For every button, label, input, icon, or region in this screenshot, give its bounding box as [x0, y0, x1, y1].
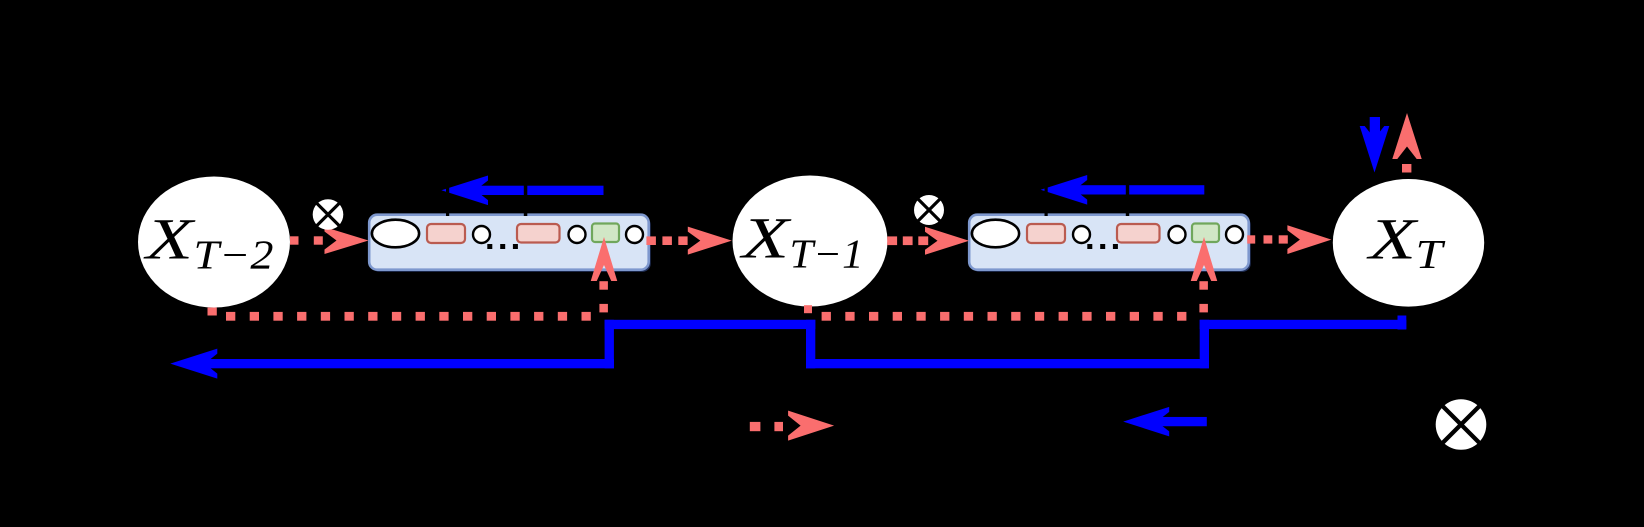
red dotted feedback line 1: up arrowhead into green cell: [591, 237, 618, 281]
red dotted feedback line 2: corner dash: [804, 305, 812, 313]
red dashed arrow RNN2 to X_T: head: [1287, 225, 1331, 254]
black occluder tick over RNN2 shaft: [1126, 168, 1129, 216]
RNN1 cell rect 2: [517, 224, 560, 243]
stop-gradient symbol 2: [914, 195, 944, 225]
legend blue arrow: head: [1123, 407, 1169, 437]
red dotted feedback line 1: horizontal dashes: [226, 312, 591, 321]
red dashed arrow RNN1 to X_T-1: dashes: [646, 236, 687, 245]
RNN2 hidden circle 2: [1169, 226, 1186, 243]
svg-text:T: T: [1416, 231, 1447, 277]
blue gradient path: upper horizontal under X_T-1 gap: [605, 320, 816, 329]
RNN2 hidden circle 1: [1073, 226, 1090, 243]
RNN1 hidden circle 3: [626, 226, 643, 243]
RNN1 cell rect 1: [427, 224, 465, 243]
RNN2 hidden circle 3: [1226, 226, 1243, 243]
svg-text:X: X: [143, 207, 196, 272]
node X_T: [1333, 179, 1484, 307]
blue gradient path: upper horizontal under X_T: [1200, 320, 1407, 329]
RNN2 input ellipse: [972, 220, 1019, 248]
RNN1 hidden circle 1: [473, 226, 490, 243]
red dashed arrow RNN1 to X_T-1: head: [688, 227, 732, 255]
red dotted feedback line 1: vertical dashes: [599, 281, 608, 312]
svg-text:X: X: [1366, 207, 1419, 272]
blue gradient path: vertical at x810: [806, 320, 815, 369]
svg-text:X: X: [739, 206, 792, 271]
RNN1 output cell (green): [592, 224, 619, 243]
RNN1 ellipsis dots: [487, 244, 518, 249]
red dashed up arrow out of X_T: dash: [1402, 164, 1411, 173]
RNN block 2 body: [969, 215, 1248, 270]
black occluder tick over RNN2 arrow tip: [1045, 168, 1048, 216]
RNN block 1 body: [369, 215, 649, 270]
blue gradient path: vertical at x610: [605, 320, 614, 369]
blue gradient path: lower horizontal under RNN2: [806, 359, 1209, 368]
RNN1 hidden circle 2: [569, 226, 586, 243]
legend red dashed arrow: dashes: [750, 422, 783, 431]
node X_T-1: [733, 176, 888, 307]
RNN1 input ellipse: [372, 220, 419, 248]
RNN block 1 shadow: [371, 217, 651, 272]
blue down arrow into X_T: shaft: [1370, 117, 1380, 140]
red dashed arrow X_T-1 to RNN2: dashes: [887, 236, 928, 245]
blue gradient path: lower horizontal to arrow: [204, 359, 615, 368]
legend blue arrow: shaft: [1156, 417, 1207, 426]
red dotted feedback line 1: corner dash: [208, 308, 217, 316]
blue down arrow into X_T: head: [1360, 126, 1390, 173]
node X_T-2: [138, 177, 290, 308]
svg-text:T−2: T−2: [194, 232, 274, 278]
red dashed up arrow out of X_T: head: [1392, 113, 1421, 159]
blue gradient path: vertical at x1205: [1200, 320, 1209, 369]
legend red dashed arrow: head: [788, 411, 834, 441]
blue gradient path: stub below X_T: [1398, 316, 1407, 330]
blue gradient path: left arrowhead: [170, 349, 217, 379]
blue backward arrow over RNN1: shaft: [474, 186, 604, 195]
red dashed arrow X_T-1 to RNN2: head: [925, 227, 969, 255]
black occluder tick over RNN1 shaft: [524, 168, 528, 216]
red dashed arrow X_T-2 to RNN1: head: [325, 227, 369, 254]
blue backward arrow over RNN1: head: [441, 175, 488, 205]
black occluder tick over RNN1 arrow tip: [446, 168, 449, 216]
blue backward arrow over RNN2: head: [1041, 175, 1088, 205]
RNN block 2 shadow: [971, 217, 1250, 272]
red dotted feedback line 2: horizontal dashes: [822, 312, 1187, 321]
red dotted feedback line 2: vertical dashes: [1199, 281, 1208, 312]
svg-text:T−1: T−1: [790, 231, 864, 277]
blue backward arrow over RNN2: shaft: [1074, 185, 1205, 194]
RNN2 cell rect 1: [1027, 224, 1065, 243]
red dotted feedback line 2: up arrowhead into green cell: [1191, 237, 1218, 281]
RNN2 cell rect 2: [1117, 224, 1160, 243]
RNN2 ellipsis dots: [1087, 244, 1118, 249]
stop-gradient symbol 1: [313, 199, 344, 230]
red dashed arrow RNN2 to X_T: dashes: [1247, 235, 1288, 243]
RNN2 output cell (green): [1192, 224, 1219, 243]
red dashed arrow X_T-2 to RNN1: dashes: [290, 236, 323, 244]
legend stop-gradient symbol: [1436, 399, 1487, 450]
